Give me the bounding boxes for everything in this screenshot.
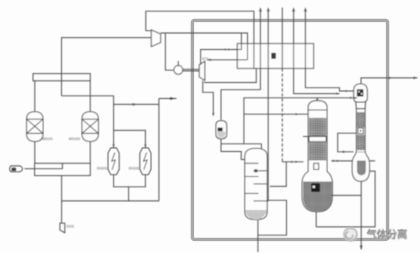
labels layer <box>42 53 276 229</box>
wire center stream dashed <box>281 68 283 161</box>
wire V1 top <box>34 81 36 112</box>
arrow right dome feed <box>354 97 358 99</box>
wire seal loop <box>258 200 287 235</box>
arrow up 4 <box>304 7 307 11</box>
wire separator side loop <box>221 143 261 145</box>
aftercooler inner pass <box>35 163 63 168</box>
cold box enclosure (thick gray border) <box>192 20 387 239</box>
right column funnel <box>356 102 366 109</box>
arrow expander inlet <box>225 48 228 50</box>
turbo expander ET101 <box>199 61 205 80</box>
right column packing 2 <box>357 135 365 150</box>
arrow bath outlet <box>333 160 336 162</box>
arrow header <box>350 97 353 99</box>
wire right column mid feed <box>338 133 357 152</box>
svg-text:气体分离: 气体分离 <box>366 229 408 242</box>
wire compressor discharge <box>161 33 248 60</box>
svg-text:MS101: MS101 <box>42 137 53 141</box>
wire column side stub <box>267 200 268 202</box>
arrow product end <box>414 77 418 80</box>
right column packing 1 <box>357 112 365 127</box>
wire regen to box <box>159 98 177 100</box>
svg-text:S101: S101 <box>66 225 74 229</box>
middle column packing 2 <box>309 142 326 161</box>
wire expander outlet <box>203 81 214 115</box>
wire P2 to separator <box>221 90 260 120</box>
wire heater bottoms join <box>114 175 146 187</box>
vent silencer S101 <box>60 223 65 233</box>
label E1 <box>272 53 276 59</box>
middle column packing 1 <box>309 118 326 137</box>
wire separator bottom <box>221 139 245 160</box>
wire regen header bottom <box>62 200 159 202</box>
wire stream O2 product 1 <box>294 9 340 94</box>
middle column shell <box>308 110 327 160</box>
arrow expander outlet down <box>212 113 214 117</box>
arrow up 2 <box>267 7 270 11</box>
separator capsule <box>216 121 227 139</box>
svg-text:EH102: EH102 <box>129 167 139 171</box>
arrow dome feed <box>336 93 339 95</box>
expander brake wheel <box>174 66 183 75</box>
right column product line <box>361 78 418 84</box>
wire to bulb inlet <box>282 161 303 163</box>
right bulb <box>352 152 369 181</box>
aftercooler box <box>35 163 91 175</box>
wire header riser <box>244 98 354 114</box>
middle bath vessel <box>302 160 332 212</box>
wire V1 bottom <box>34 141 36 163</box>
svg-text:EH101: EH101 <box>97 167 107 171</box>
wire stream O2 product 2 <box>305 9 354 91</box>
arrow bulb inlet <box>291 161 294 163</box>
right column dome <box>354 84 368 102</box>
adsorber MS101 <box>27 112 43 142</box>
wire middle bath drain <box>315 212 317 227</box>
arrow up 3 <box>292 7 295 11</box>
heater EH102 <box>140 148 151 175</box>
wire bath side outlet <box>331 194 361 196</box>
middle bath hatch <box>303 182 332 212</box>
arrow product mid <box>389 77 392 79</box>
wire cooler drain <box>61 176 63 224</box>
wire filter to cooler <box>25 168 35 170</box>
wire bath top outlet <box>331 160 375 162</box>
right dome packing <box>357 89 363 96</box>
wire stream N2 product 2 <box>267 9 269 201</box>
arrow up 1 <box>259 7 262 11</box>
right bulb contents <box>357 161 366 176</box>
heat exchanger E101 band <box>33 74 90 81</box>
wire V2 bottom <box>89 141 91 163</box>
wire right bulb drain <box>360 181 362 249</box>
wire center stream <box>281 8 283 69</box>
wire heater join drop <box>128 187 130 201</box>
svg-text:ET1: ET1 <box>203 57 209 61</box>
middle bath label <box>311 183 320 192</box>
wire recycle top <box>146 11 254 68</box>
wire reflux return <box>270 162 286 187</box>
wire heater EH101 top <box>62 96 114 148</box>
heater EH101 <box>108 148 119 175</box>
watermark logo <box>343 227 408 242</box>
wire discharge to expander wheel <box>165 33 174 70</box>
expander shaft <box>183 68 200 70</box>
wire middle column stubs <box>303 136 311 138</box>
right column distributor <box>358 128 363 134</box>
middle column dome <box>308 101 327 110</box>
tray column bottom hatch <box>246 210 267 220</box>
compressor C101 <box>151 30 160 47</box>
wire middle column top nozzle <box>316 98 318 101</box>
wire compressor suction header <box>62 38 153 96</box>
wire stream N2 product 1 <box>259 9 261 90</box>
adsorber MS102 <box>82 112 98 142</box>
tray column T101 <box>245 148 267 219</box>
wire tray column top nozzle <box>260 144 262 149</box>
right column shell <box>356 109 365 153</box>
wire transfer line <box>316 171 375 227</box>
wire expander inlet <box>201 33 242 65</box>
wire heater EH102 top branch <box>114 103 159 105</box>
main exchanger E1 <box>237 44 313 69</box>
wire P1 exchanger return <box>204 68 256 82</box>
middle column distributor <box>309 137 326 142</box>
svg-text:MS102: MS102 <box>69 137 80 141</box>
wire regen riser <box>158 99 160 201</box>
wire V2 top <box>89 81 91 112</box>
suction filter silencer <box>10 166 23 172</box>
wire tray column drain <box>257 220 259 252</box>
